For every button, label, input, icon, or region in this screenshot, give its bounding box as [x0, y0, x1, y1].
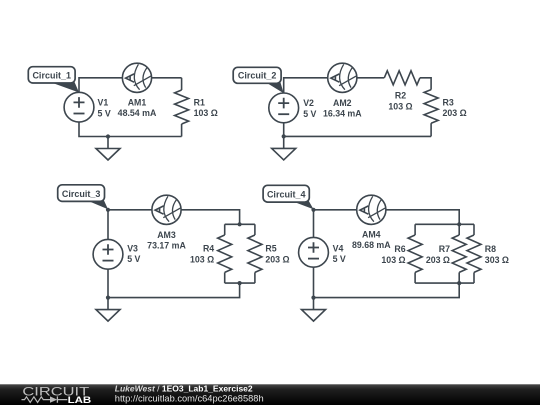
svg-text:48.54 mA: 48.54 mA	[118, 108, 157, 118]
svg-text:103 Ω: 103 Ω	[190, 254, 214, 264]
svg-text:203 Ω: 203 Ω	[443, 108, 467, 118]
svg-text:16.34 mA: 16.34 mA	[323, 109, 362, 119]
svg-text:5 V: 5 V	[333, 254, 346, 264]
svg-text:V1: V1	[98, 98, 109, 108]
svg-text:AM2: AM2	[333, 98, 352, 108]
svg-text:5 V: 5 V	[303, 109, 316, 119]
svg-text:303 Ω: 303 Ω	[485, 255, 509, 265]
svg-text:R2: R2	[395, 91, 406, 101]
svg-text:AM4: AM4	[362, 229, 381, 239]
svg-text:103 Ω: 103 Ω	[381, 255, 405, 265]
svg-text:5 V: 5 V	[127, 254, 140, 264]
svg-text:5 V: 5 V	[98, 108, 111, 118]
svg-text:203 Ω: 203 Ω	[265, 254, 289, 264]
svg-text:AM1: AM1	[128, 97, 147, 107]
svg-text:R8: R8	[485, 244, 496, 254]
svg-text:http://circuitlab.com/c64pc26e: http://circuitlab.com/c64pc26e8588h	[115, 394, 264, 404]
svg-text:R3: R3	[443, 97, 454, 107]
svg-text:89.68 mA: 89.68 mA	[352, 240, 391, 250]
svg-text:LukeWest / 1EO3_Lab1_Exercise2: LukeWest / 1EO3_Lab1_Exercise2	[115, 384, 253, 394]
svg-text:Circuit_1: Circuit_1	[32, 70, 71, 80]
svg-text:R6: R6	[394, 244, 405, 254]
svg-text:103 Ω: 103 Ω	[388, 101, 412, 111]
svg-text:Circuit_4: Circuit_4	[267, 190, 306, 200]
svg-text:R7: R7	[439, 244, 450, 254]
svg-text:R5: R5	[265, 244, 276, 254]
svg-text:V4: V4	[333, 243, 344, 253]
svg-text:AM3: AM3	[157, 230, 176, 240]
svg-text:73.17 mA: 73.17 mA	[147, 241, 186, 251]
svg-text:R1: R1	[194, 97, 205, 107]
svg-text:LAB: LAB	[68, 395, 92, 405]
svg-text:103 Ω: 103 Ω	[194, 108, 218, 118]
svg-text:Circuit_3: Circuit_3	[62, 189, 101, 199]
svg-text:Circuit_2: Circuit_2	[238, 71, 277, 81]
svg-text:R4: R4	[203, 244, 214, 254]
svg-text:V2: V2	[303, 98, 314, 108]
svg-text:203 Ω: 203 Ω	[426, 255, 450, 265]
svg-text:V3: V3	[127, 243, 138, 253]
